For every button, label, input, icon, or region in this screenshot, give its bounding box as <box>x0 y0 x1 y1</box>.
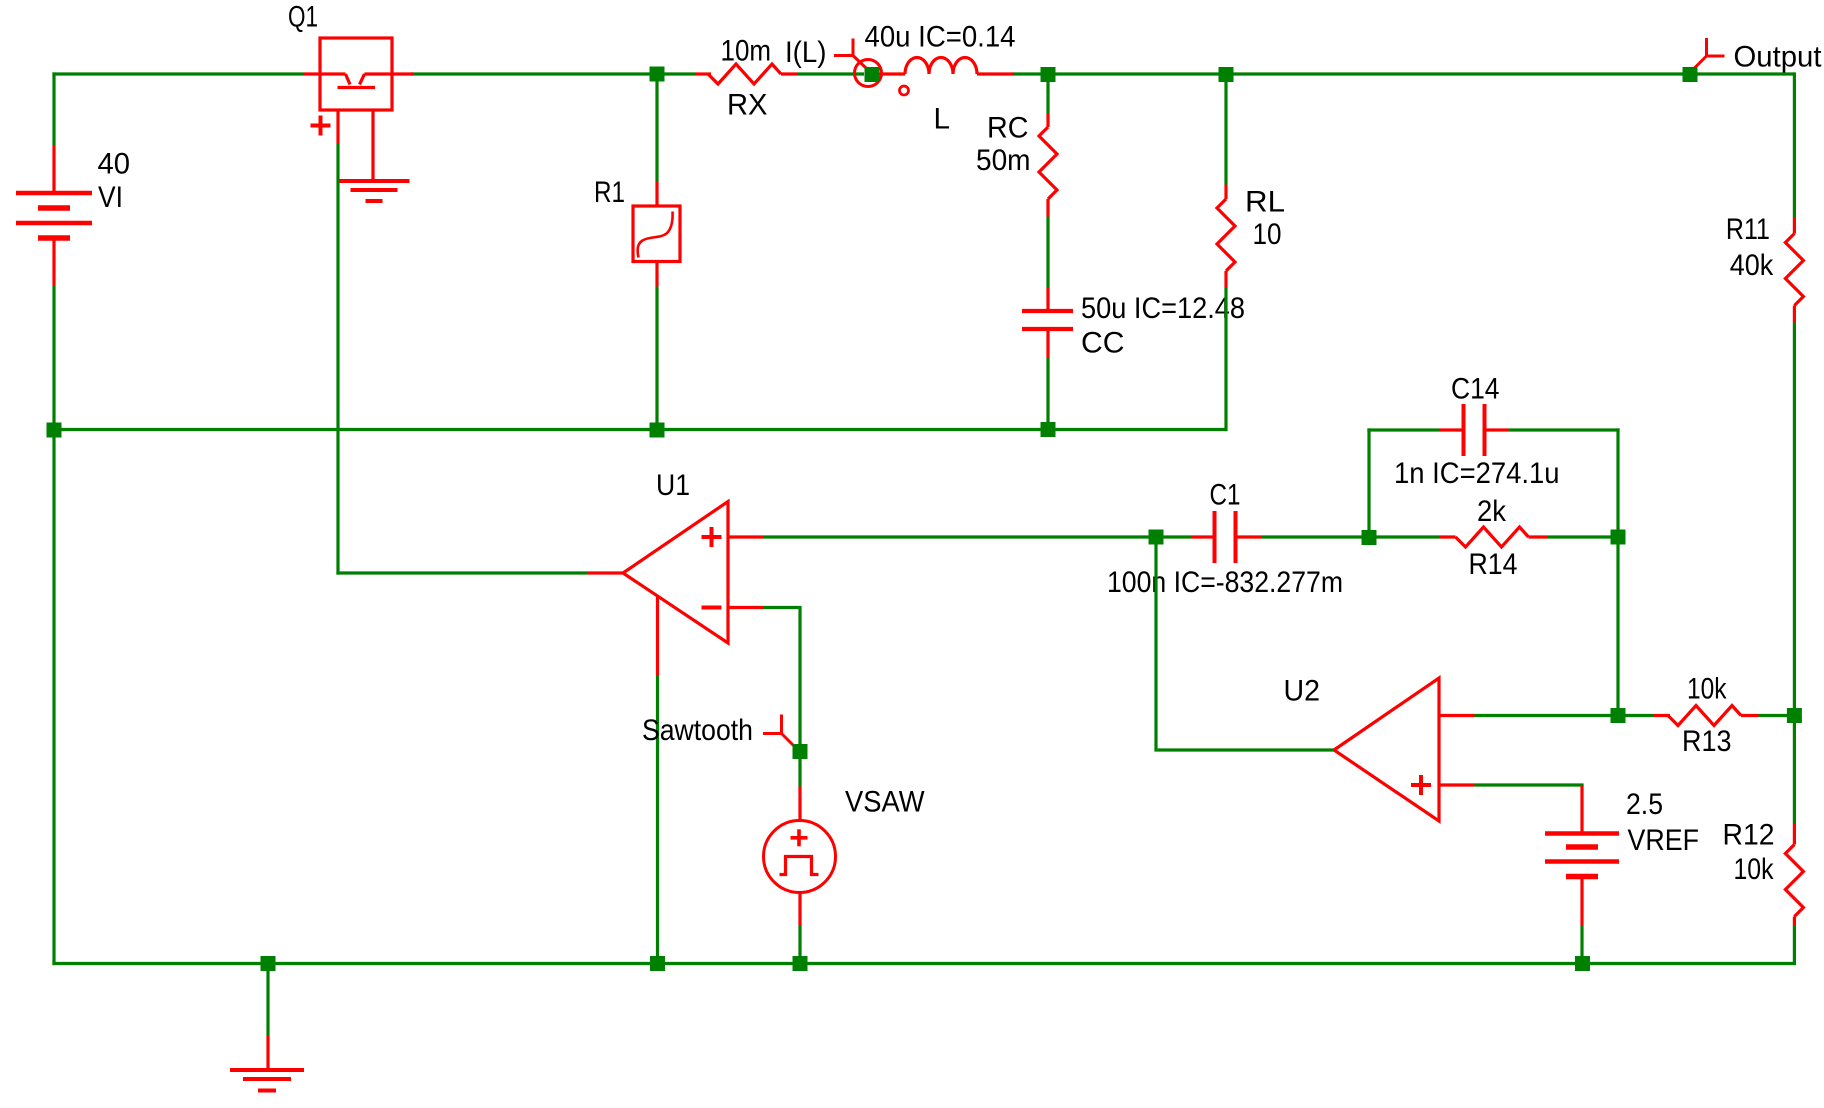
node B junction (C1/R14/C14) <box>1362 530 1377 545</box>
capacitor CC plates <box>1022 311 1073 329</box>
wire: node B up to C14 <box>1367 428 1440 538</box>
wire: top rail left segment (VI+ to Q1) <box>52 72 304 75</box>
op-amp U2 inverting input pin <box>1439 714 1475 717</box>
junction bottom rail ground stub <box>261 956 276 971</box>
junction divider tap (R11/R12/R13) <box>1787 708 1802 723</box>
svg-text:2k: 2k <box>1477 495 1507 528</box>
label C14 name <box>1451 373 1500 406</box>
label C1 name <box>1210 479 1241 512</box>
battery VREF top lead <box>1580 785 1583 834</box>
wire: R13 to divider node <box>1759 714 1795 717</box>
op-amp U2 triangle <box>1334 678 1439 821</box>
node Sawtooth junction <box>793 744 808 759</box>
ground symbol bottom left <box>230 1070 304 1091</box>
svg-text:Sawtooth: Sawtooth <box>642 714 753 747</box>
op-amp U1 minus input pin <box>728 606 763 609</box>
svg-text:C1: C1 <box>1210 479 1241 512</box>
wire: node C down to U2 inverting input <box>1616 537 1619 716</box>
switch Q1 plus control pin <box>336 110 339 144</box>
node RC junction top <box>1041 67 1056 82</box>
svg-text:10: 10 <box>1253 218 1282 251</box>
wire: C14 to node C <box>1509 428 1620 537</box>
svg-text:R14: R14 <box>1469 548 1518 581</box>
wire: U1 plus input to C1 node <box>763 535 1149 538</box>
capacitor CC top lead <box>1046 288 1049 312</box>
label Sawtooth <box>642 714 753 747</box>
svg-text:L: L <box>934 103 951 136</box>
wire: right column R12 to bottom rail corner <box>1793 926 1796 966</box>
svg-text:C14: C14 <box>1451 373 1500 406</box>
svg-text:RX: RX <box>727 89 768 122</box>
wire: left column VI to bottom rail <box>52 286 55 966</box>
label CC name <box>1081 327 1125 360</box>
wire: bottom rail (ground bus) <box>52 962 1796 965</box>
label R13 value 10k <box>1687 673 1727 706</box>
battery VI plate long top <box>16 191 92 196</box>
resistor R14 left lead <box>1439 535 1456 538</box>
node RX junction (R1 tap) <box>650 67 665 82</box>
switch Q1 plus sign <box>311 116 331 136</box>
capacitor C1 left lead <box>1191 535 1215 538</box>
op-amp U1 output lead <box>587 571 624 574</box>
svg-text:1n IC=274.1u: 1n IC=274.1u <box>1394 457 1560 490</box>
battery VI plate short <box>38 205 70 211</box>
svg-text:R1: R1 <box>594 176 625 209</box>
svg-text:50m: 50m <box>976 144 1031 177</box>
svg-text:2.5: 2.5 <box>1626 788 1663 821</box>
wire: node C to R13 <box>1618 714 1653 717</box>
resistor R13 right lead <box>1741 714 1759 717</box>
label RL value 10 <box>1253 218 1282 251</box>
current probe I(L) tick symbol <box>834 39 867 69</box>
label RC name <box>987 112 1029 145</box>
wire: top rail to RL <box>1224 72 1227 184</box>
op-amp U2 plus sign <box>1411 775 1431 795</box>
label R13 name <box>1682 725 1732 758</box>
label R14 value 2k <box>1477 495 1507 528</box>
capacitor CC bottom lead <box>1046 329 1049 358</box>
label C14 value 1n IC=274.1u <box>1394 457 1560 490</box>
battery VREF plate long top <box>1545 831 1619 836</box>
op-amp U1 plus input pin <box>728 535 763 538</box>
label Output <box>1734 41 1823 74</box>
junction middle rail CC <box>1041 422 1056 437</box>
svg-text:VSAW: VSAW <box>845 786 925 819</box>
op-amp U2 plus input pin <box>1439 783 1475 786</box>
svg-text:40k: 40k <box>1730 249 1774 282</box>
label CC value 50u IC=12.48 <box>1081 292 1245 325</box>
svg-text:VI: VI <box>98 181 123 214</box>
svg-text:Q1: Q1 <box>288 1 318 34</box>
wire: U2 plus input to VREF <box>1475 783 1584 786</box>
svg-text:100n IC=-832.277m: 100n IC=-832.277m <box>1107 566 1343 599</box>
capacitor C1 plates <box>1215 511 1236 563</box>
resistor R14 right lead <box>1529 535 1548 538</box>
switch Q1 ground pin <box>371 110 374 181</box>
svg-text:40: 40 <box>98 147 131 180</box>
resistor RC top lead <box>1046 114 1049 128</box>
label U1 <box>656 469 690 502</box>
battery VREF plate short bottom <box>1566 874 1598 880</box>
wire: node B to R14 <box>1369 535 1439 538</box>
label L name <box>934 103 951 136</box>
wire: U1 minus input to Sawtooth node <box>763 606 800 752</box>
junction middle rail left <box>47 423 62 438</box>
node C junction (R14/C14 right) <box>1611 530 1626 545</box>
node Output probe tick <box>1693 38 1725 70</box>
source VSAW circle <box>764 821 836 893</box>
node C junction at U2 input <box>1611 708 1626 723</box>
wire: Sawtooth node to VSAW <box>798 752 801 787</box>
svg-text:U2: U2 <box>1284 675 1321 708</box>
battery VREF plate long bottom <box>1545 859 1619 864</box>
svg-text:10k: 10k <box>1687 673 1727 706</box>
label R14 name <box>1469 548 1518 581</box>
wire: U2 output to C1 node <box>1156 537 1334 752</box>
switch Q1 lead-in wire (red through box) <box>304 72 346 75</box>
label R12 value 10k <box>1734 853 1775 886</box>
op-amp U1 ground pin <box>656 596 659 676</box>
resistor RX zigzag 10m <box>708 64 781 84</box>
node I(L) junction <box>865 67 880 82</box>
junction bottom rail U1 ground <box>650 956 665 971</box>
wire: top rail Q1 to node RX <box>411 72 695 75</box>
source VSAW pulse glyph <box>780 857 819 875</box>
wire: node RX down to R1 <box>655 72 658 181</box>
wire: RC to CC <box>1046 217 1049 288</box>
capacitor C14 right lead <box>1485 428 1509 431</box>
label VSAW <box>845 786 925 819</box>
svg-text:I(L): I(L) <box>785 36 827 69</box>
resistor R12 bottom lead <box>1793 917 1796 926</box>
wire: VREF to bottom rail <box>1580 926 1583 964</box>
wire: U2 inverting input to node C <box>1475 714 1619 717</box>
capacitor C14 left lead <box>1440 428 1464 431</box>
svg-text:RL: RL <box>1245 186 1285 219</box>
svg-text:R13: R13 <box>1682 725 1732 758</box>
wire: VSAW to bottom rail <box>798 926 801 964</box>
svg-text:U1: U1 <box>656 469 690 502</box>
svg-text:R11: R11 <box>1726 213 1770 246</box>
resistor R12 top lead <box>1793 823 1796 845</box>
switch Q1 contact symbol <box>338 74 376 88</box>
resistor RL bottom lead <box>1224 271 1227 288</box>
svg-text:RC: RC <box>987 112 1029 145</box>
label L value 40u IC=0.14 <box>865 21 1016 54</box>
source VSAW bottom lead <box>798 893 801 926</box>
junction bottom rail VREF <box>1575 956 1590 971</box>
label VI name <box>98 181 123 214</box>
label U2 <box>1284 675 1321 708</box>
resistor RC bottom lead <box>1046 199 1049 217</box>
svg-text:10k: 10k <box>1734 853 1775 886</box>
resistor R1 top lead <box>655 181 658 206</box>
capacitor C1 right lead <box>1236 535 1262 538</box>
label R1 <box>594 176 625 209</box>
node RL junction top <box>1219 67 1234 82</box>
svg-text:R12: R12 <box>1723 819 1775 852</box>
junction middle rail R1 <box>650 423 665 438</box>
resistor RL zigzag 10 <box>1217 199 1235 271</box>
wire: RL to middle rail corner <box>1224 288 1227 432</box>
svg-text:VREF: VREF <box>1628 824 1700 857</box>
battery VI bottom lead <box>52 238 55 286</box>
wire: C1 node to C1 <box>1163 535 1191 538</box>
inductor L lead left <box>880 72 906 75</box>
wire: U1 ground pin to bottom rail <box>656 676 659 965</box>
label RC value 50m <box>976 144 1031 177</box>
label RL name <box>1245 186 1285 219</box>
ground lead red <box>266 1035 269 1070</box>
resistor R11 top lead <box>1793 217 1796 234</box>
wire: R14 to node C <box>1548 535 1619 538</box>
current probe I(L) circle <box>855 60 882 87</box>
battery VI plate short bottom <box>38 235 70 241</box>
resistor R12 zigzag 10k <box>1785 845 1803 917</box>
source VSAW top lead <box>798 787 801 822</box>
resistor RX left lead <box>695 72 711 75</box>
label R11 value 40k <box>1730 249 1774 282</box>
junction bottom rail VSAW <box>793 956 808 971</box>
resistor RC zigzag 50m <box>1039 127 1057 199</box>
resistor RL top lead <box>1224 185 1227 200</box>
op-amp U1 plus sign <box>702 527 722 547</box>
wire: right column R11 to R12 (through R13 node) <box>1793 323 1796 824</box>
resistor R11 bottom lead <box>1793 306 1796 323</box>
battery VI 40V: top lead <box>52 146 55 194</box>
label I(L) <box>785 36 827 69</box>
label RX name <box>727 89 768 122</box>
svg-text:50u IC=12.48: 50u IC=12.48 <box>1081 292 1245 325</box>
label R11 name <box>1726 213 1770 246</box>
inductor L lead right <box>977 72 1013 75</box>
resistor R1 box with S-curve <box>633 206 680 262</box>
switch Q1 lead-out wire <box>365 72 414 75</box>
ground symbol at Q1 <box>339 181 410 201</box>
resistor R13 zigzag 10k <box>1668 706 1741 726</box>
wire: top rail L to Output corner, down right column <box>1012 72 1794 217</box>
resistor R13 left lead <box>1653 714 1670 717</box>
wire: Q1 control down and to U1 output <box>336 144 587 575</box>
wire: R1 to middle rail <box>655 287 658 430</box>
op-amp U1 triangle <box>623 502 728 644</box>
wire: bottom rail stub to ground <box>266 964 269 1036</box>
label VI value 40 <box>98 147 131 180</box>
wire: C1 to node B <box>1261 535 1369 538</box>
switch Q1 box <box>320 38 392 110</box>
source VSAW plus sign <box>791 829 808 846</box>
capacitor C14 plates <box>1464 404 1485 456</box>
label Q1 <box>288 1 318 34</box>
wire: CC to middle rail <box>1046 358 1049 430</box>
wire: top rail RX to I(L) probe node <box>798 72 864 75</box>
inductor L coils 40u <box>905 58 977 75</box>
resistor R1 bottom lead <box>655 262 658 287</box>
battery VREF plate short <box>1566 844 1598 850</box>
label VREF value 2.5 <box>1626 788 1663 821</box>
svg-text:CC: CC <box>1081 327 1125 360</box>
label VREF name <box>1628 824 1700 857</box>
label RX value 10m <box>721 34 772 67</box>
node Output junction <box>1683 67 1698 82</box>
battery VREF bottom lead <box>1580 877 1583 926</box>
op-amp U1 minus sign <box>702 606 722 610</box>
battery VI plate long bottom <box>16 221 92 226</box>
label R12 name <box>1723 819 1775 852</box>
svg-text:Output: Output <box>1734 41 1823 74</box>
resistor R11 zigzag 40k <box>1785 234 1803 306</box>
svg-text:10m: 10m <box>721 34 772 67</box>
node Sawtooth probe tick <box>763 715 796 748</box>
resistor R14 zigzag 2k <box>1456 527 1529 547</box>
wire: middle rail (VI- bus to RL bottom) <box>54 428 1226 431</box>
label C1 value 100n IC=-832.277m <box>1107 566 1343 599</box>
wire: top rail to RC <box>1046 72 1049 113</box>
svg-text:40u IC=0.14: 40u IC=0.14 <box>865 21 1016 54</box>
current probe small circle (dot terminal) <box>900 86 909 95</box>
node A junction (C1/U1+/U2 out) <box>1149 530 1164 545</box>
resistor RX right lead <box>781 72 798 75</box>
wire: left column top (VI+ up to rail) <box>52 72 55 145</box>
